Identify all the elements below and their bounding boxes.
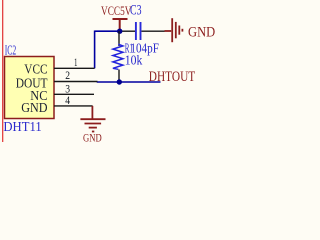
pin 4 stub	[54, 105, 93, 107]
capacitor C3 plates	[136, 22, 141, 40]
wire VCC net: corner down to pin 1 (blue)	[94, 31, 96, 69]
svg-text:2: 2	[65, 70, 70, 82]
wire capacitor to GND port (black)	[142, 30, 165, 32]
wire junction1 to capacitor (black)	[120, 30, 135, 32]
wire VCC net: junction1 left to corner (blue)	[95, 30, 120, 32]
svg-text:VCC5V: VCC5V	[101, 3, 132, 18]
power port VCC5V bar symbol	[113, 19, 128, 31]
pin 1 stub	[54, 67, 95, 69]
svg-text:10k: 10k	[125, 53, 143, 68]
power port GND (bottom) stem	[80, 106, 105, 132]
svg-text:3: 3	[65, 83, 70, 95]
svg-text:GND: GND	[188, 25, 215, 41]
junction node at resistor bottom (dot)	[117, 79, 122, 84]
svg-text:VCC: VCC	[24, 63, 47, 78]
svg-text:4: 4	[65, 95, 70, 107]
resistor R1 zigzag	[113, 44, 123, 69]
svg-text:IC2: IC2	[5, 44, 17, 59]
svg-text:DHTOUT: DHTOUT	[149, 69, 195, 85]
svg-text:GND: GND	[21, 101, 47, 116]
svg-text:1: 1	[74, 57, 78, 69]
wire resistor bottom to junction2 (black)	[118, 70, 120, 83]
pin 3 stub	[54, 93, 94, 95]
svg-text:DHT11: DHT11	[3, 120, 41, 135]
wire junction1 down to resistor (black)	[118, 31, 120, 46]
pin 2 stub	[54, 81, 98, 83]
sheet background	[0, 0, 222, 142]
junction node at VCC5V (dot)	[117, 29, 122, 34]
component IC2 body (DHT11)	[5, 57, 55, 119]
power port GND (right, rotated)	[165, 18, 183, 42]
sheet border line	[2, 0, 4, 142]
svg-text:GND: GND	[83, 133, 102, 142]
svg-text:C3: C3	[130, 3, 142, 19]
wire DHTOUT net horizontal (blue)	[97, 81, 161, 83]
